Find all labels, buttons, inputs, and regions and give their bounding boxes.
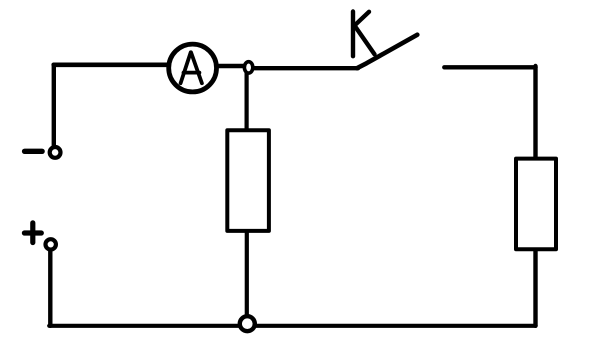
wire left lower vertical from positive terminal xyxy=(48,250,52,326)
resistor R2 xyxy=(516,159,556,250)
wire bottom horizontal xyxy=(49,324,535,328)
wire top junction down to R1 xyxy=(245,70,249,132)
wire top-left horizontal xyxy=(54,63,170,68)
resistor R1 xyxy=(227,130,269,231)
switch label K xyxy=(353,12,375,57)
node: top junction xyxy=(244,62,252,73)
switch K blade xyxy=(357,35,417,68)
wire top junction to switch xyxy=(250,66,358,70)
label minus xyxy=(25,149,42,154)
wire switch right contact xyxy=(444,65,535,69)
wire left vertical to negative terminal xyxy=(52,65,56,147)
node: bottom junction xyxy=(240,316,255,331)
wire ammeter to top junction xyxy=(214,64,248,69)
wire right vertical upper xyxy=(533,66,537,159)
wire R1 to bottom junction xyxy=(245,230,249,316)
label plus xyxy=(24,223,41,243)
ammeter A1 xyxy=(169,44,217,92)
negative terminal xyxy=(50,147,61,158)
wire right vertical lower xyxy=(533,249,537,326)
positive terminal xyxy=(46,239,56,249)
